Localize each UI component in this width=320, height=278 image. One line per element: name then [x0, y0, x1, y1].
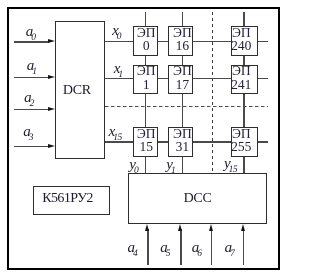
memory cell EP 17: [168, 65, 193, 94]
label a1: [27, 59, 37, 74]
memory cell EP 16: [168, 26, 193, 56]
memory cell EP 31: [168, 127, 193, 156]
label a3: [23, 125, 33, 140]
label x0: [112, 24, 121, 39]
memory cell EP 0: [133, 26, 158, 56]
label y15: [224, 157, 237, 172]
input arrow a3: [14, 146, 49, 147]
dashed row continuation wire: [105, 106, 269, 107]
label a0: [26, 25, 36, 40]
input arrow a7: [243, 229, 244, 265]
input arrow a2: [14, 109, 49, 110]
label a4: [128, 241, 138, 256]
label y1: [166, 158, 175, 173]
wire column y15: [243, 12, 244, 173]
label x15: [109, 125, 122, 140]
memory cell EP 15: [133, 127, 158, 156]
wire row x15: [105, 141, 269, 142]
memory cell EP 255: [231, 127, 258, 156]
wire column y1: [182, 12, 183, 173]
label a2: [24, 91, 34, 106]
dashed column continuation wire: [212, 12, 213, 171]
input arrow a1: [14, 77, 49, 78]
input arrow a4: [147, 229, 148, 265]
input arrow a0: [14, 41, 49, 42]
memory cell EP 240: [231, 26, 258, 56]
label a6: [192, 241, 202, 256]
wire row x1: [105, 78, 269, 79]
memory cell EP 1: [133, 65, 158, 94]
input arrow a5: [180, 229, 181, 265]
chip name box K561RU2: [33, 186, 110, 215]
input arrow a6: [211, 229, 212, 265]
decoder block DCC: [128, 173, 267, 224]
label y0: [129, 158, 138, 173]
label x1: [114, 62, 123, 77]
label a5: [160, 241, 170, 256]
decoder block DCR: [55, 21, 106, 160]
wire column y0: [145, 12, 146, 173]
memory cell EP 241: [231, 65, 258, 94]
wire row x0: [105, 41, 269, 42]
label a7: [225, 241, 235, 256]
